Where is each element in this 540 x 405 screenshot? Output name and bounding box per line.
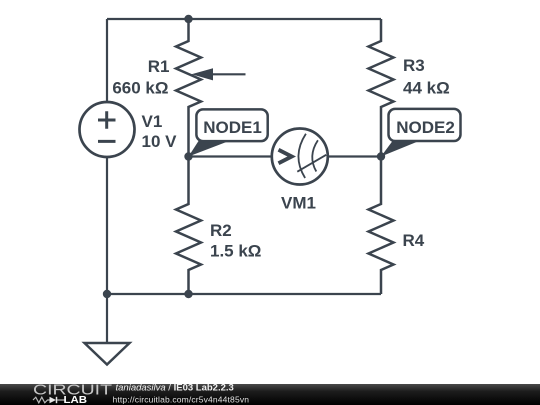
svg-text:660 kΩ: 660 kΩ bbox=[112, 79, 168, 98]
resistor R1 (rheostat) bbox=[176, 19, 246, 157]
svg-text:R3: R3 bbox=[403, 56, 425, 75]
label R4 bbox=[403, 231, 425, 250]
footer CircuitLab logo bbox=[33, 382, 112, 405]
svg-text:R2: R2 bbox=[210, 221, 232, 240]
resistor R2 bbox=[176, 157, 201, 295]
node NODE1 junction dot bbox=[184, 152, 192, 160]
svg-text:R4: R4 bbox=[403, 231, 425, 250]
wire bottom horizontal bbox=[107, 293, 381, 295]
voltmeter VM1 bbox=[272, 129, 328, 185]
svg-text:taniadasilva / IE03 Lab2.2.3: taniadasilva / IE03 Lab2.2.3 bbox=[116, 383, 234, 394]
svg-text:VM1: VM1 bbox=[281, 194, 316, 213]
junction dot bottom left (ground) bbox=[103, 290, 111, 298]
svg-text:NODE1: NODE1 bbox=[203, 118, 262, 137]
wire VM1 to node2 bbox=[328, 155, 381, 157]
svg-text:V1: V1 bbox=[142, 112, 163, 131]
node NODE2 callout bbox=[381, 109, 461, 157]
svg-text:http://circuitlab.com/cr5v4n44: http://circuitlab.com/cr5v4n44t85vn bbox=[113, 395, 250, 405]
label R2 bbox=[210, 221, 232, 240]
resistor R4 bbox=[369, 157, 394, 295]
junction dot top of R1 bbox=[184, 15, 192, 23]
footer watermark bar bbox=[0, 384, 540, 405]
label R3 bbox=[403, 56, 425, 75]
ground bbox=[85, 294, 130, 365]
wire node1 to VM1 bbox=[189, 155, 273, 157]
svg-text:10 V: 10 V bbox=[142, 132, 178, 151]
label R1 value 660 kΩ bbox=[112, 79, 168, 98]
svg-text:LAB: LAB bbox=[64, 394, 88, 405]
label R3 value 44 kΩ bbox=[403, 78, 450, 97]
voltage source V1 bbox=[80, 102, 135, 157]
wire left vertical upper (V1 to top) bbox=[106, 19, 108, 103]
label VM1 bbox=[281, 194, 316, 213]
svg-text:R1: R1 bbox=[148, 57, 170, 76]
junction dot bottom of R2 bbox=[184, 290, 192, 298]
label R1 bbox=[148, 57, 170, 76]
footer url text bbox=[113, 395, 250, 405]
label V1 value 10 V bbox=[142, 132, 178, 151]
resistor R3 bbox=[369, 19, 394, 157]
wire top horizontal bbox=[107, 18, 381, 20]
label V1 bbox=[142, 112, 163, 131]
label R2 value 1.5 kΩ bbox=[210, 241, 261, 260]
node NODE1 callout bbox=[189, 109, 268, 156]
footer title text bbox=[116, 383, 234, 394]
node NODE2 junction dot bbox=[377, 152, 385, 160]
svg-text:44 kΩ: 44 kΩ bbox=[403, 78, 450, 97]
svg-text:1.5 kΩ: 1.5 kΩ bbox=[210, 241, 261, 260]
svg-text:NODE2: NODE2 bbox=[396, 118, 455, 137]
wire left vertical lower (V1 to bottom) bbox=[106, 157, 108, 295]
